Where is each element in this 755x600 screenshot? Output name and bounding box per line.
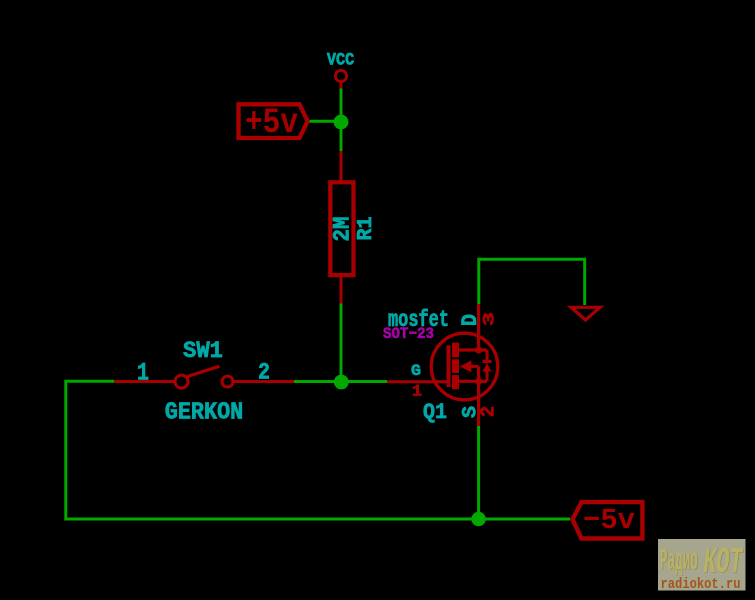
svg-text:VCC: VCC (327, 52, 355, 71)
svg-text:G: G (411, 362, 421, 380)
svg-text:R1: R1 (355, 217, 378, 241)
svg-text:1: 1 (137, 360, 149, 388)
svg-text:2: 2 (258, 359, 270, 385)
svg-text:+5v: +5v (245, 103, 298, 143)
svg-text:SW1: SW1 (183, 338, 223, 364)
svg-text:D: D (458, 314, 483, 326)
svg-text:3: 3 (481, 312, 499, 326)
svg-text:2: 2 (477, 406, 499, 417)
svg-text:2M: 2M (330, 217, 356, 242)
svg-text:1: 1 (412, 382, 422, 400)
svg-text:radiokot.ru: radiokot.ru (661, 576, 741, 593)
svg-text:GERKON: GERKON (165, 400, 244, 427)
svg-text:−5v: −5v (583, 504, 635, 537)
svg-text:SOT−23: SOT−23 (383, 325, 434, 343)
svg-text:Радио: Радио (660, 544, 698, 579)
svg-text:Q1: Q1 (423, 400, 447, 425)
